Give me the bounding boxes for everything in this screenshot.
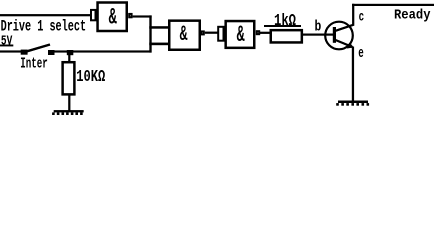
gate U2 output tab xyxy=(201,31,203,34)
wire: vertical bus xyxy=(149,15,151,52)
svg-text:&: & xyxy=(180,22,188,48)
transistor Q1 emitter arrowhead xyxy=(347,42,354,48)
switch S1 lever xyxy=(27,45,50,52)
wire: 5V underline xyxy=(0,45,13,47)
svg-text:&: & xyxy=(109,4,118,31)
wire: collector up xyxy=(352,4,354,26)
svg-text:1kΩ: 1kΩ xyxy=(274,11,296,30)
wire: stub to U2 upper input xyxy=(149,26,169,29)
gate U3 output tab xyxy=(257,31,259,34)
svg-text:10KΩ: 10KΩ xyxy=(76,67,105,86)
wire: junction to R2 xyxy=(68,54,70,63)
svg-text:Ready: Ready xyxy=(394,9,431,24)
gate U3 (AND) xyxy=(226,21,255,48)
wire: R2 to ground xyxy=(68,96,70,111)
wire: Drive 1 select input line xyxy=(0,14,91,16)
svg-text:b: b xyxy=(315,19,322,36)
svg-text:e: e xyxy=(358,46,364,62)
ground GND1 hatch xyxy=(52,112,83,115)
wire: U3 to R1 xyxy=(260,32,271,34)
resistor R1 1k xyxy=(271,30,302,42)
wire: 5V line left segment xyxy=(0,50,22,52)
wire: emitter down xyxy=(352,47,354,102)
svg-text:&: & xyxy=(237,22,246,49)
wire: 5V line right segment xyxy=(54,50,152,52)
wire: U2 to U3 xyxy=(205,32,218,34)
svg-text:Inter: Inter xyxy=(20,57,48,73)
wire: 1kOhm underline xyxy=(264,25,301,27)
transistor Q1 base bar xyxy=(333,27,336,43)
gate U2 (AND) xyxy=(169,21,200,50)
ground GND1 bar xyxy=(54,110,84,112)
switch S1 right contact xyxy=(48,50,55,55)
ground GND2 hatch xyxy=(336,103,369,106)
gate U1 input inverter tab xyxy=(91,10,96,20)
svg-text:c: c xyxy=(359,9,365,25)
transistor Q1 circle xyxy=(325,22,353,50)
gate U1 (AND) xyxy=(98,3,127,32)
svg-text:5V: 5V xyxy=(1,33,13,49)
gate U3 input inverter tab xyxy=(218,27,223,41)
wire: stub to U2 lower input xyxy=(149,43,169,46)
svg-text:Drive 1 select: Drive 1 select xyxy=(1,18,87,36)
transistor Q1 emitter stroke xyxy=(336,40,353,47)
gate U1 output tab xyxy=(129,14,131,17)
transistor Q1 collector stroke xyxy=(336,25,354,31)
wire: U1 output to vertical bus xyxy=(133,15,152,17)
resistor R2 10K xyxy=(63,62,75,94)
junction dot xyxy=(67,50,74,55)
switch S1 left contact xyxy=(21,50,28,55)
wire: Ready line xyxy=(352,4,434,6)
ground GND2 bar xyxy=(338,101,368,104)
wire: R1 to base xyxy=(302,34,334,36)
